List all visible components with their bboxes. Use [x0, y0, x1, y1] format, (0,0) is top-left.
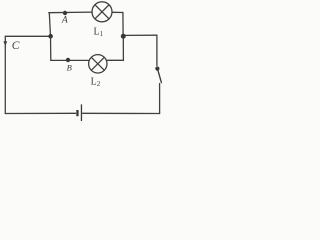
- wire bottom left of battery: [5, 112, 75, 114]
- switch S blade: [158, 71, 161, 83]
- wire top branch right: [112, 12, 123, 34]
- wire split vertical: [49, 13, 51, 61]
- node A junction dot: [63, 11, 67, 15]
- svg-text:C: C: [12, 40, 20, 52]
- svg-text:A: A: [61, 15, 68, 26]
- lamp L1: [92, 2, 112, 22]
- battery cell: positive long thin plate: [81, 104, 82, 121]
- switch S pivot dot: [155, 67, 159, 71]
- wire right branch down to L2: [107, 39, 124, 61]
- wire right upper vertical to switch: [156, 35, 158, 66]
- wire right horizontal from junction: [126, 34, 157, 36]
- junction dot left (split node): [48, 34, 53, 39]
- wire middle horizontal (C branch feed): [5, 35, 50, 37]
- svg-text:B: B: [67, 63, 72, 73]
- wire left vertical: [4, 37, 6, 114]
- node B junction dot: [66, 58, 70, 62]
- wire bottom branch left: [51, 59, 90, 61]
- junction dot right (merge node): [121, 34, 126, 39]
- current arrow on left wire: [3, 41, 7, 46]
- wire top branch left: [49, 11, 92, 14]
- wire right lower vertical from switch: [159, 84, 161, 114]
- lamp L2: [89, 55, 107, 73]
- wire bottom right of battery: [83, 112, 160, 114]
- battery cell: negative short thick plate: [76, 110, 78, 116]
